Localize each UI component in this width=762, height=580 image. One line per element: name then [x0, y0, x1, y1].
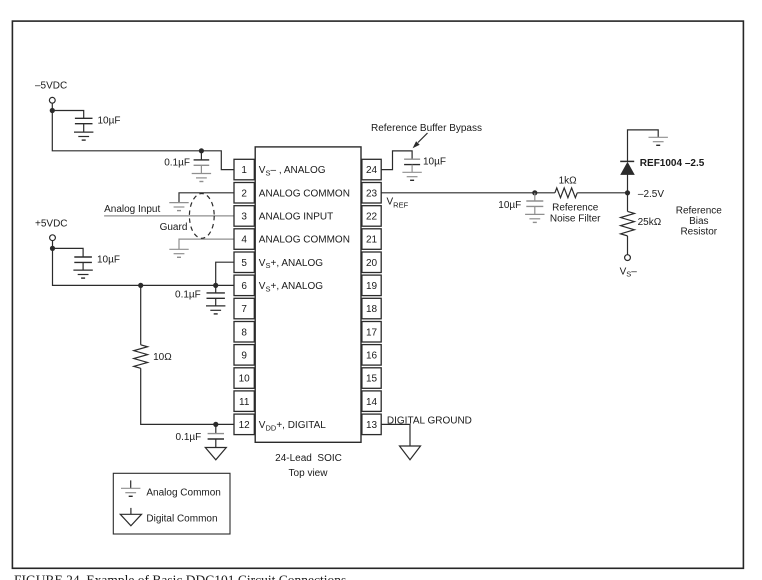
svg-text:0.1µF: 0.1µF	[164, 158, 190, 169]
svg-text:Noise Filter: Noise Filter	[550, 214, 601, 225]
pin 11	[234, 391, 254, 412]
svg-text:18: 18	[366, 304, 378, 315]
wire -5VDC terminal to junction	[51, 103, 53, 110]
wire pin 13 to digital ground	[381, 424, 410, 446]
svg-text:ANALOG INPUT: ANALOG INPUT	[259, 212, 333, 223]
svg-text:ANALOG COMMON: ANALOG COMMON	[259, 188, 350, 199]
junction 10-ohm branch	[138, 283, 143, 288]
wire analog input to pin 3	[104, 215, 234, 217]
svg-text:VS–: VS–	[620, 266, 638, 278]
pin 3	[234, 206, 254, 227]
wire pin 23 VREF rail	[381, 192, 555, 194]
pin 13	[362, 414, 381, 435]
ground (analog common) under buffer bypass cap	[402, 171, 421, 173]
pin 17	[362, 322, 381, 343]
svg-text:2: 2	[241, 188, 247, 199]
svg-text:FIGURE 24. Example of Basic DD: FIGURE 24. Example of Basic DDC101 Circu…	[14, 573, 346, 580]
junction +5VDC	[50, 246, 55, 251]
svg-text:0.1µF: 0.1µF	[176, 432, 202, 443]
wire 1k resistor to -2.5V node	[577, 192, 627, 194]
ground (analog common) at pin 2 guard	[169, 202, 188, 204]
svg-text:VREF: VREF	[387, 197, 409, 210]
terminal +5VDC	[50, 235, 56, 241]
junction pin-12 0.1uF tap	[213, 422, 218, 427]
svg-text:ANALOG COMMON: ANALOG COMMON	[259, 235, 350, 246]
svg-text:–2.5V: –2.5V	[638, 189, 664, 200]
svg-text:–5VDC: –5VDC	[35, 80, 67, 91]
pin 22	[362, 206, 381, 227]
svg-text:10µF: 10µF	[423, 157, 446, 168]
svg-text:9: 9	[241, 351, 247, 362]
ground (digital common) at pin 13	[400, 446, 421, 460]
ground (analog common) under noise filter cap	[525, 213, 544, 215]
wire junction up to pin 5	[216, 262, 234, 285]
pin 21	[362, 229, 381, 250]
op-amp / ADC U1 body (24-lead SOIC)	[255, 147, 361, 442]
svg-text:7: 7	[241, 304, 247, 315]
svg-text:24: 24	[366, 165, 378, 176]
resistor 25k ohm	[621, 211, 635, 235]
guard ellipse (dashed)	[189, 194, 214, 239]
pin 5	[234, 252, 254, 273]
pin 19	[362, 275, 381, 296]
pin 20	[362, 252, 381, 273]
pin 1	[234, 159, 254, 180]
pin 15	[362, 368, 381, 389]
junction pin-5 / 0.1uF branch	[213, 283, 218, 288]
pin 14	[362, 391, 381, 412]
wire 25k resistor to VS- terminal	[627, 236, 629, 255]
svg-text:12: 12	[239, 420, 251, 431]
svg-text:19: 19	[366, 281, 378, 292]
capacitor 0.1uF (pin 1 bypass)	[200, 151, 202, 160]
svg-text:10µF: 10µF	[498, 200, 521, 211]
legend box	[113, 473, 230, 534]
svg-text:DIGITAL GROUND: DIGITAL GROUND	[387, 415, 472, 426]
wire pin 2 to guard ground	[179, 193, 234, 203]
ground (analog common) under +5V 10uF	[73, 269, 92, 271]
wire +5VDC rail to pin 6	[53, 248, 235, 285]
pin 23	[362, 183, 381, 204]
junction 0.1uF tap on -5V rail	[199, 148, 204, 153]
svg-text:17: 17	[366, 327, 378, 338]
ground (analog common) under -5V 10uF	[74, 131, 93, 133]
wire -2.5V node down to 25k resistor	[627, 193, 629, 212]
svg-text:0.1µF: 0.1µF	[175, 289, 201, 300]
ground (analog common) under pin-6 0.1uF	[206, 305, 225, 307]
pin 16	[362, 345, 381, 366]
wire diode cathode to ground	[628, 130, 659, 162]
capacitor 10uF (reference noise filter)	[534, 193, 536, 201]
ground (analog common) above REF1004	[649, 136, 668, 138]
resistor 1k ohm	[555, 188, 577, 198]
pin 18	[362, 298, 381, 319]
svg-text:21: 21	[366, 235, 378, 246]
svg-text:8: 8	[241, 327, 247, 338]
svg-text:Analog Input: Analog Input	[104, 204, 160, 215]
pin 8	[234, 322, 254, 343]
terminal VS-	[625, 255, 631, 261]
wire -2.5V node up to diode anode	[627, 175, 629, 193]
svg-text:Resistor: Resistor	[680, 227, 717, 238]
pin 2	[234, 183, 254, 204]
svg-text:Guard: Guard	[160, 222, 188, 233]
junction -5VDC	[50, 108, 55, 113]
svg-text:23: 23	[366, 188, 378, 199]
svg-text:Digital Common: Digital Common	[146, 513, 217, 524]
svg-text:4: 4	[241, 235, 247, 246]
pin 24	[362, 159, 381, 180]
svg-text:Bias: Bias	[689, 216, 708, 227]
svg-text:+5VDC: +5VDC	[35, 218, 68, 229]
svg-text:11: 11	[239, 397, 250, 408]
svg-text:14: 14	[366, 397, 378, 408]
capacitor 10uF (reference buffer bypass)	[404, 158, 420, 160]
junction noise-filter cap tap	[532, 190, 537, 195]
wire 10-ohm to pin 12	[141, 368, 234, 424]
svg-text:1: 1	[241, 165, 247, 176]
svg-text:5: 5	[241, 258, 247, 269]
svg-text:13: 13	[366, 420, 378, 431]
wire +5V to 10-ohm resistor	[140, 285, 142, 344]
legend analog common symbol	[130, 480, 132, 488]
svg-text:10µF: 10µF	[98, 116, 121, 127]
svg-text:20: 20	[366, 258, 378, 269]
ground (digital common) under pin-12 0.1uF	[205, 448, 226, 460]
pin 9	[234, 345, 254, 366]
terminal -5VDC	[49, 97, 55, 103]
pin 4	[234, 229, 254, 250]
resistor 10 ohm	[134, 345, 148, 369]
pin 10	[234, 368, 254, 389]
svg-text:10µF: 10µF	[97, 254, 120, 265]
svg-text:15: 15	[366, 374, 378, 385]
svg-text:REF1004 –2.5: REF1004 –2.5	[640, 158, 705, 169]
diode D1 REF1004	[621, 163, 634, 175]
wire +5VDC junction to capacitor	[53, 248, 84, 257]
ground (analog common) under pin-1 0.1uF	[192, 173, 211, 175]
svg-text:3: 3	[241, 212, 247, 223]
svg-text:10: 10	[239, 374, 251, 385]
wire pin 4 to guard ground	[179, 239, 234, 249]
capacitor 10uF (-5V bypass)	[75, 117, 93, 119]
svg-text:16: 16	[366, 351, 378, 362]
svg-text:1kΩ: 1kΩ	[559, 176, 578, 187]
svg-text:Analog Common: Analog Common	[146, 488, 220, 499]
arrow to bypass capacitor	[418, 133, 428, 143]
capacitor 10uF (+5V bypass)	[74, 256, 92, 258]
svg-text:22: 22	[366, 212, 378, 223]
capacitor 0.1uF (pin 6 bypass)	[215, 285, 217, 292]
svg-text:10Ω: 10Ω	[153, 352, 172, 363]
svg-text:25kΩ: 25kΩ	[638, 217, 662, 228]
pin 6	[234, 275, 254, 296]
svg-text:Reference: Reference	[676, 206, 723, 217]
wire -5VDC junction to capacitor	[52, 111, 83, 119]
wire pin 24 to bypass capacitor	[381, 151, 412, 170]
svg-text:Top view: Top view	[289, 468, 329, 479]
svg-text:24-Lead SOIC: 24-Lead SOIC	[275, 453, 342, 464]
legend digital common symbol	[130, 508, 132, 514]
pin 7	[234, 298, 254, 319]
svg-text:Reference Buffer Bypass: Reference Buffer Bypass	[371, 123, 482, 134]
junction -2.5V node	[625, 190, 630, 195]
wire -5VDC rail down and right to pin 1	[52, 111, 234, 170]
wire +5VDC terminal to junction	[52, 241, 54, 249]
pin 12	[234, 414, 254, 435]
svg-text:6: 6	[241, 281, 247, 292]
svg-text:Reference: Reference	[552, 202, 599, 213]
ground (analog common) at pin 4 guard	[169, 248, 188, 250]
capacitor 0.1uF (pin 12 bypass)	[215, 424, 217, 433]
